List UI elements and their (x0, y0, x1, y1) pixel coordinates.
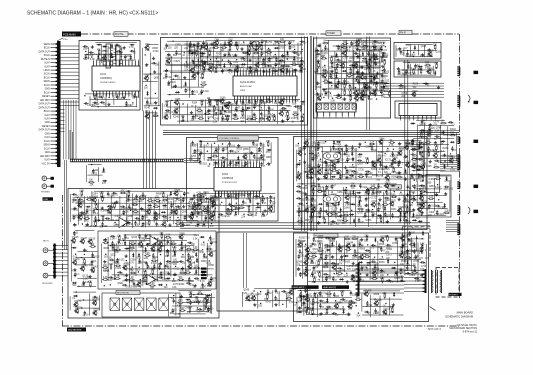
diode D137 (280, 65, 285, 67)
resistor R891 (147, 199, 149, 201)
svg-text:22K: 22K (287, 296, 292, 298)
capacitor C227 (192, 44, 194, 46)
w (246, 44, 248, 70)
resistor R139 (291, 64, 293, 66)
pin 4 of IC101 (102, 61, 104, 66)
ground (399, 142, 401, 144)
svg-text:IC841: IC841 (450, 129, 457, 131)
svg-text:CXP85340: CXP85340 (222, 178, 234, 180)
svg-text:22K: 22K (214, 72, 219, 74)
node N92 (294, 49, 295, 50)
diode D911 (147, 204, 152, 206)
resistor R836 (422, 176, 424, 178)
pin 31 of IC201 (257, 96, 259, 102)
svg-text:4.7K: 4.7K (343, 213, 348, 215)
pin 12 of IC201 (266, 70, 268, 76)
svg-text:22K: 22K (416, 218, 421, 220)
svg-text:4.7K: 4.7K (155, 198, 160, 200)
pin 21 of CN101 (51, 118, 58, 120)
svg-text:1K: 1K (154, 204, 157, 206)
svg-text:0.01: 0.01 (382, 50, 387, 52)
svg-text:MD IN: MD IN (43, 241, 49, 243)
svg-text:2.2K: 2.2K (329, 78, 334, 80)
capacitor C710 (298, 203, 300, 205)
transistor Q951 (154, 216, 158, 220)
w (91, 191, 93, 226)
section label on top border 2 (326, 31, 341, 36)
svg-text:3.3K: 3.3K (411, 74, 416, 76)
svg-text:3.3K: 3.3K (145, 50, 150, 52)
w (244, 104, 246, 123)
capacitor C676 (296, 190, 298, 192)
resistor R471 (212, 155, 214, 157)
w (456, 133, 458, 161)
pin 6 of CN501 (347, 112, 349, 116)
capacitor C889 (133, 198, 135, 200)
capacitor C921 (80, 212, 82, 214)
node N428 (402, 69, 403, 70)
svg-text:IC101: IC101 (100, 74, 107, 76)
node N115 (236, 59, 237, 60)
ground (318, 177, 320, 179)
svg-text:PHONES: PHONES (41, 192, 50, 194)
node N690 (394, 191, 395, 192)
ground (345, 166, 347, 168)
svg-text:Q1199: Q1199 (289, 289, 296, 291)
svg-text:Q518: Q518 (379, 244, 385, 246)
svg-text:47K: 47K (433, 125, 438, 127)
capacitor C403 (373, 76, 375, 78)
ground (318, 44, 320, 46)
ground (249, 58, 251, 60)
node N113 (216, 58, 217, 59)
diode D684 (356, 192, 361, 194)
w (384, 96, 444, 98)
w (449, 180, 451, 212)
svg-text:4.7K: 4.7K (348, 90, 353, 92)
block outline: power amp block (294, 137, 428, 230)
w (322, 187, 324, 218)
diode D718 (351, 203, 356, 205)
svg-text:1K: 1K (349, 69, 352, 71)
capacitor C555 (332, 145, 334, 147)
capacitor C37 (100, 101, 102, 103)
ground (101, 206, 103, 208)
w (252, 44, 254, 70)
block outline: motor drive box (217, 232, 308, 311)
w (97, 167, 99, 182)
w (199, 146, 256, 148)
capacitor C292 (324, 45, 326, 47)
capacitor C321 (336, 63, 338, 65)
pin 17 of IC601 (215, 191, 217, 197)
ground (141, 207, 143, 209)
transistor Q605 (332, 164, 336, 168)
resistor R407 (375, 82, 377, 84)
capacitor C168 (242, 99, 244, 101)
pin 1 of IC601 (215, 162, 217, 168)
connector CN101 body bar (57, 41, 61, 167)
svg-text:Q1244: Q1244 (346, 242, 354, 244)
transistor Q474 (243, 155, 247, 159)
w (403, 47, 405, 56)
capacitor C639 (306, 173, 308, 175)
pin 13 of IC601 (250, 162, 252, 168)
svg-text:Q1327: Q1327 (304, 270, 312, 272)
svg-text:IC661: IC661 (371, 169, 378, 171)
svg-text:3.3K: 3.3K (166, 235, 171, 237)
capacitor C91 (289, 45, 291, 47)
w (200, 56, 297, 58)
resistor R369 (344, 90, 346, 92)
capacitor C188 (281, 107, 283, 109)
svg-text:R419: R419 (203, 192, 209, 194)
w (94, 190, 183, 192)
svg-text:Q102: Q102 (247, 49, 253, 51)
ground (346, 176, 348, 178)
ground (317, 92, 319, 94)
node N386 (376, 98, 377, 99)
svg-text:10K: 10K (420, 152, 425, 154)
node N199 (273, 114, 274, 115)
svg-text:LED DRV: LED DRV (40, 156, 50, 158)
pin 21 of IC101 (109, 91, 111, 96)
capacitor C759 (372, 213, 374, 215)
resistor network RN102 (116, 46, 120, 66)
w (316, 178, 421, 180)
diode D167 (235, 100, 237, 105)
svg-text:4.7K: 4.7K (341, 100, 346, 102)
resistor R436 (413, 68, 415, 70)
node N282 (326, 88, 327, 89)
bus verticals from DSP down to tape block (142, 111, 144, 189)
node N862 (97, 209, 98, 210)
capacitor C104 (261, 51, 263, 53)
diode D763 (400, 212, 402, 217)
w (97, 199, 99, 222)
svg-text:22K: 22K (355, 100, 360, 102)
w (277, 104, 279, 124)
pin 44 of IC201 (295, 96, 297, 102)
w (416, 214, 447, 216)
svg-text:3.3K: 3.3K (309, 217, 314, 219)
ground (249, 66, 251, 68)
capacitor C532 (262, 211, 264, 213)
capacitor C630 (365, 171, 367, 173)
transistor Q609 (372, 163, 376, 167)
diode D917 (195, 205, 200, 207)
svg-text:SCLK: SCLK (44, 141, 50, 143)
diode D306 (362, 52, 364, 57)
ground (429, 160, 431, 162)
resistor R764 (404, 212, 406, 214)
svg-text:0.022: 0.022 (438, 214, 444, 216)
svg-text:DIGITAL: DIGITAL (115, 33, 124, 36)
svg-text:0.022: 0.022 (376, 48, 382, 50)
pin 7 of IC601 (232, 162, 234, 168)
ground (229, 203, 231, 205)
diode D159 (293, 69, 298, 71)
svg-text:1K: 1K (186, 302, 189, 304)
svg-text:R151: R151 (349, 58, 355, 60)
w (407, 56, 434, 58)
svg-text:Q962: Q962 (210, 215, 216, 217)
svg-text:3.3K: 3.3K (426, 140, 431, 142)
resistor R770 (324, 218, 326, 220)
capacitor C801 (418, 142, 420, 144)
w (167, 106, 222, 108)
capacitor C953 (162, 215, 164, 217)
svg-text:C618: C618 (406, 45, 412, 47)
svg-text:GND: GND (45, 152, 50, 154)
capacitor C305 (353, 53, 355, 55)
svg-text:0.01: 0.01 (172, 287, 177, 289)
node N220 (172, 41, 173, 42)
pin 29 of IC201 (251, 96, 253, 102)
resistor R893 (162, 199, 164, 201)
svg-text:3.3K: 3.3K (164, 106, 169, 108)
node N531 (256, 212, 257, 213)
IC IC201 (233, 76, 297, 96)
capacitor C116 (240, 57, 242, 59)
resistor R887 (102, 196, 104, 198)
pin 5 of IC101 (105, 61, 107, 66)
capacitor C742 (377, 207, 379, 209)
svg-text:1K: 1K (421, 169, 424, 171)
capacitor C166 (226, 102, 228, 104)
svg-text:0.022: 0.022 (356, 57, 362, 59)
w (225, 198, 227, 214)
svg-text:Q936: Q936 (174, 209, 180, 211)
node N843 (437, 184, 438, 185)
capacitor C578 (343, 153, 345, 155)
w (353, 50, 355, 91)
block outline: audio DAC block (161, 38, 308, 126)
resistor R496 (248, 193, 250, 195)
ground (399, 47, 401, 49)
capacitor C508 (262, 199, 264, 201)
resistor R800 (412, 139, 414, 141)
capacitor C53 (146, 99, 148, 101)
pin 18 of IC101 (99, 91, 101, 96)
pin 27 of CN101 (51, 140, 58, 142)
w (85, 165, 87, 182)
w (147, 44, 159, 46)
svg-text:0.01: 0.01 (379, 259, 384, 261)
svg-text:0.01: 0.01 (335, 78, 340, 80)
w (105, 94, 107, 108)
ground (376, 81, 378, 83)
svg-text:IC741: IC741 (404, 202, 411, 204)
capacitor C461 (215, 147, 217, 149)
svg-text:IC171: IC171 (385, 160, 392, 162)
block outline: FM IF box B (394, 61, 441, 77)
node N50 (145, 85, 146, 86)
svg-text:1K: 1K (372, 259, 375, 261)
long rails in DAC block (165, 44, 303, 46)
svg-text:2.2K: 2.2K (311, 314, 316, 316)
svg-text:0.022: 0.022 (91, 173, 97, 175)
capacitor C888 (127, 196, 129, 198)
transistor Q156 (280, 68, 284, 72)
resistor R483 (223, 161, 225, 163)
svg-text:47K: 47K (266, 141, 271, 143)
svg-text:1K: 1K (412, 151, 415, 153)
node N659 (305, 185, 306, 186)
svg-text:22K: 22K (184, 70, 189, 72)
svg-text:R330: R330 (379, 262, 385, 264)
w (328, 77, 379, 79)
svg-text:Q1314: Q1314 (332, 264, 340, 266)
pin 3 of IC101 (99, 61, 101, 66)
svg-text:SCLK: SCLK (44, 74, 50, 76)
capacitor C293 (338, 45, 340, 47)
ground (238, 144, 240, 146)
resistor R898 (196, 199, 198, 201)
transistor Q877 (174, 192, 178, 196)
capacitor C734 (320, 207, 322, 209)
capacitor C434 (398, 70, 400, 72)
pin 3 of CN501 (329, 112, 331, 116)
capacitor C603 (318, 163, 320, 165)
svg-text:47K: 47K (325, 303, 330, 305)
ground (175, 84, 177, 86)
w (198, 192, 275, 194)
svg-text:C658: C658 (193, 162, 199, 164)
capacitor C491 (213, 196, 215, 198)
IC IC303 (399, 104, 437, 116)
pin 9 of CN101 (51, 73, 58, 75)
ground (398, 171, 400, 173)
svg-text:0.01: 0.01 (231, 146, 236, 148)
svg-text:47K: 47K (97, 50, 102, 52)
svg-text:R455: R455 (167, 199, 173, 201)
svg-text:0.01: 0.01 (285, 55, 290, 57)
svg-text:22K: 22K (321, 56, 326, 58)
svg-text:R991: R991 (286, 106, 292, 108)
diode D839 (446, 176, 448, 181)
w (334, 52, 336, 90)
pin 16 of IC101 (93, 91, 95, 96)
w (402, 50, 437, 52)
svg-text:0.01: 0.01 (144, 216, 149, 218)
block outline: relay box (426, 175, 440, 193)
pin 4 of IC601 (223, 162, 225, 168)
w (384, 82, 444, 84)
resistor R907 (114, 202, 116, 204)
pin 10 of IC101 (121, 61, 123, 66)
capacitor C666 (359, 183, 361, 185)
svg-text:47K: 47K (323, 264, 328, 266)
ground (317, 221, 319, 223)
ground (111, 53, 113, 55)
svg-text:16BIT: 16BIT (240, 90, 246, 92)
svg-text:4.7K: 4.7K (100, 196, 105, 198)
capacitor C484 (229, 160, 231, 162)
pin 15 of IC601 (256, 162, 258, 168)
svg-text:2.2K: 2.2K (78, 196, 83, 198)
svg-text:47K: 47K (88, 282, 93, 284)
capacitor C489 (193, 194, 195, 196)
svg-text:0.022: 0.022 (196, 150, 202, 152)
svg-text:4.7K: 4.7K (165, 101, 170, 103)
capacitor C349 (381, 74, 383, 76)
pin 42 of IC201 (289, 96, 291, 102)
w (171, 56, 173, 89)
resistor R859 (443, 212, 445, 214)
transistor Q814 (434, 154, 438, 158)
resistor R103 (253, 52, 255, 54)
w (297, 183, 396, 185)
IC CN501 (316, 103, 356, 112)
svg-text:CXD2586Q: CXD2586Q (100, 78, 112, 80)
resistor R945 (102, 215, 104, 217)
resistor R310 (331, 56, 333, 58)
resistor R905 (95, 203, 97, 205)
pin 11 of IC101 (125, 61, 127, 66)
resistor R634 (393, 167, 395, 169)
svg-text:Q1005: Q1005 (139, 241, 147, 243)
svg-text:10K: 10K (311, 304, 316, 306)
svg-text:4.7K: 4.7K (165, 268, 170, 270)
svg-text:4.7K: 4.7K (214, 67, 219, 69)
capacitor C807 (428, 146, 430, 148)
svg-text:22K: 22K (241, 217, 246, 219)
capacitor C463 (229, 150, 231, 152)
resistor R379 (336, 97, 338, 99)
resistor R767 (297, 220, 299, 222)
svg-text:Q725: Q725 (390, 200, 396, 202)
pin 3 of IC601 (220, 162, 222, 168)
capacitor C198 (268, 110, 270, 112)
svg-text:Q570: Q570 (298, 150, 304, 152)
power transistor pair B (323, 195, 341, 203)
svg-text:C304: C304 (429, 212, 435, 214)
resistor R595 (366, 158, 368, 160)
svg-text:10K: 10K (396, 190, 401, 192)
node N106 (275, 54, 276, 55)
w (342, 187, 344, 220)
svg-text:10K: 10K (299, 297, 304, 299)
capacitor C148 (221, 69, 223, 71)
resistor R458 (267, 141, 269, 143)
w (195, 44, 286, 46)
pin 19 of IC201 (286, 70, 288, 76)
pin 27 of IC601 (244, 191, 246, 197)
capacitor C100 (242, 52, 244, 54)
svg-text:0.01: 0.01 (241, 44, 246, 46)
pin 3 of IC303 (408, 116, 410, 120)
pin 32 of CN101 (51, 159, 58, 161)
transistor Q381 (355, 96, 359, 100)
svg-text:0.01: 0.01 (225, 198, 230, 200)
svg-text:47K: 47K (254, 51, 259, 53)
node N711 (306, 203, 307, 204)
ground (311, 176, 313, 178)
svg-text:PCB MAIN: PCB MAIN (63, 33, 76, 37)
resistor R739 (357, 208, 359, 210)
block outline: tape EQ block (68, 189, 219, 319)
pin 2 of IC601 (217, 162, 219, 168)
ground (154, 211, 156, 213)
capacitor C153 (255, 67, 257, 69)
svg-text:2.2K: 2.2K (79, 191, 84, 193)
svg-text:BCLK: BCLK (44, 48, 50, 50)
capacitor C594 (357, 160, 359, 162)
diode D27 (130, 55, 132, 60)
resistor R95 (196, 50, 198, 52)
svg-text:2.2K: 2.2K (370, 141, 375, 143)
